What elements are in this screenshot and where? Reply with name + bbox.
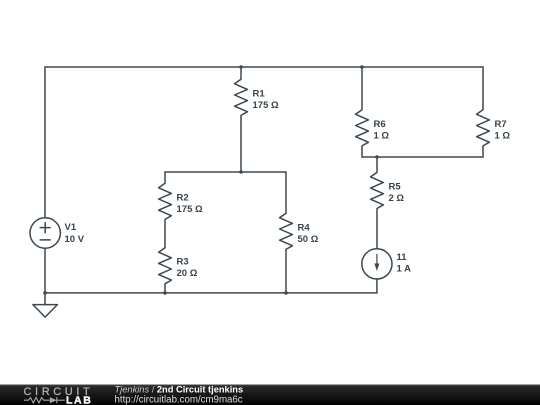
- node junction top R6: [360, 65, 364, 69]
- svg-text:1 Ω: 1 Ω: [495, 130, 511, 141]
- wire top rail: [45, 66, 483, 68]
- wire R6-R7 bottom: [362, 156, 483, 158]
- ground: [33, 293, 58, 317]
- resistor R1: [235, 67, 248, 172]
- svg-text:R2: R2: [177, 192, 189, 203]
- footer bar: [0, 385, 540, 405]
- svg-text:20 Ω: 20 Ω: [177, 268, 198, 279]
- resistor R7: [477, 67, 490, 157]
- node junction R3 bottom: [163, 291, 167, 295]
- label R1 175 ohm: [253, 88, 279, 111]
- svg-text:http://circuitlab.com/cm9ma6c: http://circuitlab.com/cm9ma6c: [115, 395, 243, 405]
- resistor R4: [280, 172, 293, 293]
- label I1 1 A: [397, 252, 412, 275]
- resistor R6: [356, 67, 369, 157]
- wire bottom rail: [45, 292, 377, 294]
- svg-text:LAB: LAB: [66, 394, 92, 405]
- svg-text:175 Ω: 175 Ω: [177, 204, 203, 215]
- label R4 50 ohm: [298, 222, 319, 245]
- svg-text:175 Ω: 175 Ω: [253, 100, 279, 111]
- svg-text:R4: R4: [298, 222, 311, 233]
- label R7 1 ohm: [495, 119, 511, 142]
- svg-text:R5: R5: [389, 181, 402, 192]
- resistor R5: [371, 157, 384, 249]
- resistor R2: [159, 172, 172, 248]
- voltage source V1: [30, 218, 60, 248]
- logo wire-resistor-diode glyph: [24, 397, 65, 403]
- svg-text:2 Ω: 2 Ω: [389, 193, 405, 204]
- svg-text:R6: R6: [374, 119, 386, 130]
- svg-text:1 A: 1 A: [397, 264, 412, 275]
- label R6 1 ohm: [374, 119, 390, 142]
- label R3 20 ohm: [177, 257, 198, 280]
- svg-text:50 Ω: 50 Ω: [298, 234, 319, 245]
- svg-text:Tjenkins / 2nd Circuit tjenkin: Tjenkins / 2nd Circuit tjenkins: [115, 385, 244, 395]
- node junction R4 bottom: [284, 291, 288, 295]
- node junction top R1: [239, 65, 243, 69]
- current source I1: [362, 249, 392, 293]
- node junction middle R1: [239, 170, 243, 174]
- label R5 2 ohm: [389, 181, 405, 204]
- node junction ground: [43, 291, 47, 295]
- label V1 10 V: [65, 222, 85, 245]
- label R2 175 ohm: [177, 192, 203, 215]
- svg-text:R7: R7: [495, 119, 507, 130]
- wire middle rail: [165, 171, 286, 173]
- resistor R3: [159, 248, 172, 293]
- svg-text:10 V: 10 V: [65, 234, 85, 245]
- svg-text:1 Ω: 1 Ω: [374, 130, 390, 141]
- wire left rail: [44, 67, 46, 218]
- svg-text:R3: R3: [177, 257, 189, 268]
- svg-text:V1: V1: [65, 222, 77, 233]
- svg-text:11: 11: [397, 252, 408, 263]
- svg-text:R1: R1: [253, 88, 266, 99]
- node junction R5 top: [375, 155, 379, 159]
- wire V1 to ground node: [44, 248, 46, 293]
